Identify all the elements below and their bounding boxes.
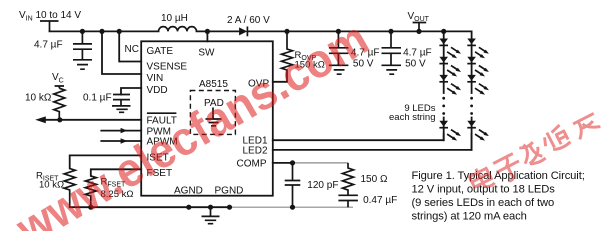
resistor RISET 10k (36, 169, 75, 208)
resistor ROVP 150k (282, 31, 325, 81)
resistor R1 150ohm (343, 163, 388, 195)
svg-text:VSENSE: VSENSE (147, 61, 188, 72)
svg-text:VDD: VDD (147, 85, 168, 96)
wire LED2 return (273, 134, 472, 150)
wire VIN drop (102, 31, 141, 74)
svg-text:4.7 µF: 4.7 µF (34, 40, 63, 51)
watermark chinese (467, 109, 604, 197)
svg-text:AGND: AGND (174, 186, 203, 197)
svg-text:50 V: 50 V (405, 59, 426, 70)
wire top input rail (50, 30, 159, 32)
node dot COMP (290, 160, 295, 165)
wire inductor to diode (197, 30, 240, 32)
node dot FAULT/RVC (57, 117, 62, 122)
svg-text:GATE: GATE (147, 46, 174, 57)
svg-text:0.1 µF: 0.1 µF (83, 93, 112, 104)
inductor L1 10uH (159, 13, 197, 31)
resistor RVC 10k (25, 88, 65, 120)
node PAD (190, 91, 235, 135)
caption figure 1 (412, 170, 585, 223)
svg-text:each string: each string (389, 112, 435, 123)
wire PWM input (101, 128, 141, 133)
label 9 LEDs each string (389, 103, 436, 123)
resistor RFSET 8.25k (85, 176, 133, 207)
pin labels left (147, 46, 188, 179)
svg-text:10 kΩ: 10 kΩ (25, 93, 52, 104)
led string 1 wire (442, 31, 445, 140)
wire diode to output corner (247, 30, 471, 32)
capacitor C3 120pF (285, 163, 339, 207)
led D1c (439, 75, 461, 95)
node VC terminal (52, 72, 64, 88)
led string 2 wire (470, 31, 473, 149)
svg-text:SW: SW (198, 47, 215, 58)
op-amp U1 A8515 outline (141, 41, 273, 195)
node VOUT terminal (408, 11, 430, 31)
capacitor C4 0.47uF (338, 195, 397, 207)
led D2d (467, 121, 489, 141)
wire COMP stub (273, 162, 293, 164)
wire LED1 return (273, 134, 444, 140)
pin labels bottom (174, 186, 243, 197)
wire SW drop (206, 31, 208, 41)
wire ISET to RISET (70, 155, 142, 168)
capacitor C VDD 0.1uF (83, 88, 141, 112)
svg-text:LED2: LED2 (243, 145, 268, 156)
capacitor CIN 4.7uF (34, 31, 92, 69)
svg-text:4.7 µF: 4.7 µF (403, 48, 432, 59)
node junction dots on output rail (284, 29, 446, 34)
svg-text:strings) at 120 mA each: strings) at 120 mA each (412, 211, 527, 223)
node dots ground rail (88, 205, 295, 210)
pin labels right (198, 47, 269, 169)
svg-text:2 A / 60 V: 2 A / 60 V (227, 15, 270, 26)
node FAULT arrow (35, 116, 46, 123)
led D2a (467, 39, 489, 59)
wire VSENSE drop (119, 31, 141, 61)
svg-text:10 µH: 10 µH (161, 13, 188, 24)
svg-text:COMP: COMP (237, 158, 267, 169)
capacitor C2 4.7uF 50V (382, 31, 432, 74)
capacitor C1 4.7uF 50V (329, 31, 380, 74)
wire COMP gray (293, 162, 349, 164)
wire FSET to RFSET (91, 169, 141, 176)
svg-text:0.47 µF: 0.47 µF (363, 195, 397, 206)
led D1d (439, 121, 461, 141)
node VIN terminal (19, 10, 81, 31)
led D1b (439, 57, 461, 77)
wire APWM input (101, 138, 141, 143)
svg-text:PGND: PGND (215, 186, 244, 197)
diode D1 2A/60V (227, 15, 270, 36)
svg-text:150 Ω: 150 Ω (361, 174, 388, 185)
watermark www.elecfans.com (7, 12, 377, 240)
svg-text:(9 series LEDs in each of two: (9 series LEDs in each of two (412, 197, 555, 209)
svg-text:120 pF: 120 pF (307, 180, 338, 191)
wire FAULT line (40, 119, 141, 121)
led D2c (467, 75, 489, 95)
led D1a (439, 39, 461, 59)
led D2b (467, 57, 489, 77)
wire ground rail black (70, 206, 230, 208)
svg-text:VIN: VIN (147, 73, 164, 84)
node junction dots on input rail (80, 29, 210, 34)
svg-text:NC: NC (125, 44, 139, 55)
wire ground rail gray (230, 206, 353, 208)
wire OVP stub (273, 81, 287, 83)
ground main (202, 207, 220, 224)
